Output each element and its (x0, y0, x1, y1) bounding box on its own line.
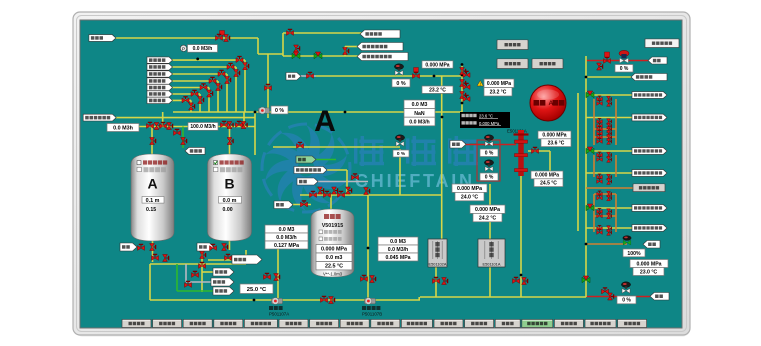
valve cluster-4b (607, 123, 612, 129)
junction (461, 74, 464, 77)
3-way valve (314, 52, 322, 59)
branch connector 3b (593, 194, 595, 232)
svg-text:24.0 °C: 24.0 °C (461, 194, 479, 200)
label reflux (286, 73, 301, 81)
svg-text:0.00: 0.00 (223, 207, 233, 213)
3-way valve (292, 52, 300, 59)
valve preheater A outlet 2 (442, 278, 448, 285)
nav button 15 (554, 320, 583, 328)
center vertical (367, 195, 369, 298)
branch row 1 (586, 94, 632, 96)
center meter flow (378, 245, 418, 253)
junction (367, 247, 370, 250)
pressure bottom right (630, 260, 668, 268)
valve branch top (200, 252, 206, 259)
label louver steam bottom (650, 293, 669, 301)
plant water drop (346, 170, 348, 195)
branch connector 3 (615, 194, 617, 232)
valve tank-top-v2 (332, 187, 338, 194)
riser to return label (344, 47, 346, 57)
riser a (162, 112, 164, 127)
label steam recovery (643, 241, 660, 249)
junction (433, 75, 436, 78)
valve hot-water drop 2 (181, 138, 187, 145)
svg-text:P501107B: P501107B (362, 312, 382, 317)
valve branch-3 (185, 281, 192, 287)
nav button 10 (401, 320, 432, 328)
label washing agent (147, 71, 173, 77)
valve tank-top-1 (310, 191, 317, 197)
feed to tank A (151, 127, 153, 155)
drop to boxes (549, 151, 551, 171)
reflux header (316, 75, 462, 77)
NaN display (404, 109, 435, 118)
drop to pump (267, 54, 269, 118)
stub to label D (208, 259, 232, 261)
position 100% (623, 249, 645, 257)
stub from big valve (528, 150, 550, 152)
valve on hot water header (297, 142, 304, 148)
label plant process water (294, 167, 327, 174)
junction (461, 63, 464, 66)
control valve on reflux header (394, 64, 403, 75)
preheater B outlet (489, 267, 491, 297)
nav button 13 (495, 320, 520, 328)
valve cluster-12b (607, 179, 612, 185)
svg-text:0.0 M3h: 0.0 M3h (113, 125, 133, 131)
into hot water tank (330, 195, 332, 209)
branch row 4 (586, 172, 632, 174)
screen (80, 20, 682, 328)
valve cluster-11a (597, 174, 603, 179)
valve cluster-3b (607, 119, 612, 125)
valve top feed 2 (224, 35, 230, 42)
pipe from mountain spring header (115, 37, 258, 39)
valve preheater B outlet (513, 277, 520, 283)
valve stack-5H (200, 84, 207, 90)
svg-text:0.15: 0.15 (146, 207, 156, 213)
watermark logo (261, 124, 478, 212)
valve to continuous system (287, 29, 294, 35)
label mountain spring group (89, 35, 116, 42)
label steam (274, 201, 293, 209)
label continuous liquor return (357, 43, 403, 51)
valve bottom-1 (321, 296, 328, 302)
bottom steam position (617, 296, 636, 304)
branch row 3 (586, 150, 632, 152)
valve header-7 (236, 121, 243, 127)
valve cluster-1b (607, 96, 612, 102)
vacuum line (318, 181, 368, 183)
label to continuous liquor D (232, 255, 262, 264)
valve handle (220, 31, 225, 36)
top steam to louver (586, 60, 648, 62)
valve tank A out-3 (152, 254, 159, 260)
preheater E501102A (428, 239, 447, 267)
pressure preheater A (470, 205, 505, 213)
pressure warning display (484, 79, 514, 88)
grey stub (186, 281, 211, 283)
valve header-6 (227, 122, 233, 129)
meter drop (277, 249, 279, 298)
steam control valve 2 (484, 160, 493, 171)
volume display (404, 100, 435, 109)
valve header-5 (221, 121, 228, 127)
process water line (116, 117, 255, 119)
valve bottom steam 2 (608, 293, 614, 300)
valve cluster-13a (597, 191, 603, 196)
valve header-2 (154, 123, 160, 130)
valve cluster-1a (597, 96, 603, 101)
svg-text:0.127 MPa: 0.127 MPa (274, 243, 299, 249)
nav button 3 (183, 320, 212, 328)
valve cluster-15b (607, 209, 612, 215)
label production mixed liquor system (357, 53, 408, 61)
valve cluster-9b (607, 152, 612, 158)
temperature preheater B (455, 192, 484, 200)
valve cluster-2b (607, 101, 612, 107)
drop from stack label 7 (190, 100, 192, 112)
position hot water (393, 150, 409, 157)
flow meter icon (180, 45, 186, 52)
svg-text:NaN: NaN (414, 111, 425, 117)
bottom long header (150, 299, 420, 301)
valve cluster-15a (597, 209, 603, 214)
bottom steam to louver (586, 296, 650, 298)
tank meter flow (265, 233, 308, 241)
branch row 2 (586, 117, 632, 119)
valve cluster-16a (597, 213, 603, 218)
svg-text:0.000 MPa: 0.000 MPa (475, 207, 500, 213)
label steam supply (450, 141, 466, 149)
branch connector 2 (615, 155, 617, 177)
label fermenter (147, 91, 173, 97)
tank A (131, 154, 174, 241)
valve cluster-17b (607, 226, 612, 232)
valve cluster-2a (597, 101, 603, 106)
valve center-1 (361, 275, 368, 281)
pipe from stack label 5 (172, 87, 209, 89)
hot water tank temperature (316, 262, 352, 270)
temperature mid-right (534, 179, 563, 187)
label yeast workshop (147, 64, 173, 70)
to pipe-rack button (586, 187, 633, 189)
pipe from stack label 4 (172, 80, 218, 82)
svg-text:P501107A: P501107A (269, 312, 289, 317)
tank meter pressure (265, 241, 308, 249)
bridge (258, 53, 283, 55)
top steam position (615, 65, 633, 73)
big valve drop (520, 176, 522, 297)
valve cluster-6a (597, 131, 603, 136)
stub to sorbitol (202, 271, 213, 273)
steam info black box (460, 112, 510, 128)
junction (344, 111, 347, 114)
valve stack-2V (234, 70, 240, 77)
metering pump (259, 107, 270, 114)
valve top feed 1 (216, 34, 223, 40)
tank B (208, 154, 252, 241)
nav button 11 (434, 320, 463, 328)
svg-text:P: P (182, 46, 185, 52)
valve above 3-way (294, 45, 300, 52)
pump A label (269, 306, 289, 317)
descending branch (201, 250, 203, 292)
valve beside E501101A (532, 147, 539, 153)
top steam control valve (619, 50, 629, 63)
mid cluster row 2 (594, 136, 616, 138)
junction (585, 243, 588, 246)
svg-text:0.000 MPa: 0.000 MPa (535, 173, 559, 179)
flow display 0.0 M3h (107, 124, 139, 132)
nav button 4 (214, 320, 243, 328)
flow display 0.0 M3/h (188, 45, 218, 53)
valve cluster-16b (607, 213, 612, 219)
valve stack-5V (207, 90, 213, 97)
nav button 6 (279, 320, 308, 328)
svg-text:0 %: 0 % (622, 298, 631, 304)
valve cluster-5a (597, 127, 603, 132)
hot water tank pressure (316, 245, 352, 253)
pipe from stack label 1 (172, 59, 245, 61)
valve cluster-17a (597, 226, 603, 231)
label line 2-3 sample (632, 114, 667, 121)
mid cluster row 1 (594, 128, 616, 130)
pump speed 0 % (271, 106, 288, 114)
svg-text:A: A (314, 105, 336, 138)
junction (254, 111, 257, 114)
valve cluster-14a (597, 195, 603, 200)
position 1 (480, 149, 498, 157)
nav button 1 (122, 320, 151, 328)
svg-text:23.2 °C: 23.2 °C (490, 90, 507, 96)
valve drop-6 (463, 95, 470, 101)
steam control valve 1 (484, 135, 493, 146)
button control (532, 59, 563, 69)
hot water tank volume (316, 253, 352, 261)
temperature by big valve (541, 139, 571, 147)
svg-text:0.0 M3/h: 0.0 M3/h (388, 247, 408, 253)
3-way valve branch 5 (586, 204, 594, 211)
svg-text:100.0 M3/h: 100.0 M3/h (190, 124, 215, 130)
valve vacuum line (352, 174, 359, 180)
valve preheater B outlet 2 (522, 278, 528, 285)
valve cluster-3a (597, 119, 603, 124)
svg-text:0.0 m: 0.0 m (223, 198, 237, 204)
valve cluster-18b (607, 230, 612, 236)
hot water tank V501915 (311, 209, 354, 277)
valve bottom steam 1 (602, 288, 609, 294)
valve tank-top-v1 (318, 187, 324, 194)
label vacuum (297, 178, 318, 185)
upper left vertical (282, 33, 284, 56)
svg-text:0.0 M3/h: 0.0 M3/h (409, 119, 429, 125)
warning triangle (477, 80, 483, 86)
3-way valve branch 1 (586, 91, 594, 98)
right main vertical (585, 56, 587, 297)
valve handle (605, 52, 610, 57)
label continuous liquor system (360, 30, 400, 38)
hot water tank top header (300, 194, 441, 196)
valve tank B feed (227, 138, 233, 145)
svg-text:0.0 M3/h: 0.0 M3/h (276, 235, 296, 241)
nav button 9 (371, 320, 400, 328)
nav button 2 (153, 320, 182, 328)
svg-text:23.0 °C: 23.0 °C (640, 269, 658, 275)
green actuator valve (623, 235, 632, 245)
button monitor continuous liquor 1 (645, 39, 679, 48)
junction (585, 76, 588, 79)
valve reflux (307, 72, 314, 78)
mid vertical to preheater A (441, 76, 443, 239)
plant water stub (327, 169, 347, 171)
valve cluster-10a (597, 157, 603, 162)
svg-text:0 %: 0 % (275, 108, 284, 114)
svg-text:0.0 M3: 0.0 M3 (390, 239, 406, 245)
svg-text:24.2 °C: 24.2 °C (479, 215, 497, 221)
valve header-1 (147, 122, 154, 128)
branch connector 1 (615, 99, 617, 145)
junction (520, 274, 523, 277)
nav button 17 (618, 320, 647, 328)
svg-text:0.1 m: 0.1 m (146, 198, 160, 204)
valve top steam bypass (597, 63, 603, 70)
nav button 12 (465, 320, 494, 328)
svg-text:A: A (147, 176, 157, 192)
junction (253, 299, 256, 302)
svg-text:0.045 MPa: 0.045 MPa (385, 255, 410, 261)
drop from control valve (399, 149, 401, 195)
right drop (254, 112, 256, 155)
valve cluster-5b (607, 127, 612, 133)
drop from stack label 4 (217, 81, 219, 112)
svg-text:25.0 °C: 25.0 °C (247, 287, 267, 293)
svg-text:22.5 °C: 22.5 °C (325, 264, 343, 270)
temperature bottom right (633, 268, 664, 276)
valve header-3 (160, 122, 167, 128)
label spring tank (147, 57, 173, 63)
svg-text:0.000 MPa: 0.000 MPa (479, 121, 500, 126)
drop from stack label 2 (235, 67, 237, 112)
drop to preheater B (489, 184, 491, 239)
tank B leg (245, 250, 247, 264)
valve tank-top-2 (324, 191, 331, 197)
valve meter drop-1 (264, 273, 271, 279)
valve cluster-14b (607, 195, 612, 201)
svg-text:V501915: V501915 (322, 223, 344, 229)
svg-text:0.000 MPa: 0.000 MPa (457, 186, 482, 192)
pipe to production liquor system (283, 55, 360, 57)
to green actuator (586, 243, 627, 245)
svg-text:!: ! (480, 81, 481, 86)
label line 1-2 sample (632, 148, 667, 155)
valve stack-2H (227, 63, 234, 69)
svg-text:B: B (224, 176, 234, 192)
valve top steam main (604, 57, 611, 63)
valve cluster-8a (597, 139, 603, 144)
label louver steam A (120, 243, 137, 251)
pump B label (362, 306, 382, 317)
green drop to hot-water label (182, 127, 184, 149)
bottom steam control valve (621, 282, 630, 293)
pipe to return label (345, 46, 358, 48)
label filter (147, 84, 173, 90)
nav button 5 (244, 320, 277, 328)
svg-text:0.0 M3: 0.0 M3 (279, 227, 295, 233)
valve meter drop-2 (274, 274, 280, 281)
valve left-center (265, 84, 272, 90)
to application system (586, 76, 631, 78)
label hot water tank feed (185, 147, 205, 154)
drop from stack label 5 (208, 88, 210, 113)
valve stack-4V (216, 84, 222, 91)
valve cluster-12a (597, 179, 603, 184)
valve position 0 % (392, 79, 410, 87)
nav button 16 (585, 320, 616, 328)
bottom right header (420, 296, 586, 298)
pressure mid-right (531, 171, 563, 179)
steam stub to tank (293, 204, 311, 206)
flow display (404, 117, 435, 126)
pipe from stack label 6 (172, 93, 200, 95)
valve cluster-10b (607, 157, 612, 163)
junction (441, 116, 444, 119)
valve drop-3 (460, 80, 466, 87)
valve drop-4 (463, 83, 470, 89)
svg-text:0 %: 0 % (485, 175, 494, 181)
valve cluster-7b (607, 135, 612, 141)
pump B (365, 298, 376, 305)
svg-text:V**-1.0m3: V**-1.0m3 (323, 271, 343, 276)
valve bottom-2 (329, 297, 335, 304)
valve tank B out-2 (222, 244, 228, 251)
valve tank B out-1 (210, 244, 217, 250)
button pipe-rack mid (633, 184, 665, 192)
button one-key close (497, 40, 528, 50)
header jog (418, 297, 420, 300)
preheater A outlet (435, 267, 437, 297)
svg-text:0.000 MPa: 0.000 MPa (487, 81, 511, 87)
tank B outlet (229, 241, 231, 250)
hot water stub (316, 159, 336, 161)
valve tank A feed (150, 138, 156, 145)
valve header-4 (167, 123, 173, 130)
svg-text:0.0 M3/h: 0.0 M3/h (193, 46, 213, 52)
pipe to continuous-liquor system (283, 32, 362, 34)
collector (150, 263, 246, 265)
stop button (liquor A stop) (530, 85, 566, 121)
junction below flow box (196, 58, 199, 61)
valve center riser (364, 188, 370, 195)
reflux grey stub (300, 75, 316, 77)
green stub to hot water tank label (177, 290, 213, 292)
valve tank A out-2 (150, 244, 156, 251)
svg-text:24.5 °C: 24.5 °C (540, 181, 557, 187)
temperature preheater A (473, 213, 502, 221)
valve stack-6H (191, 90, 198, 96)
control valve hot water (395, 135, 404, 146)
grey branch (185, 264, 187, 282)
svg-text:0.0 m3: 0.0 m3 (326, 255, 343, 261)
label line b2-2 sample (632, 205, 667, 212)
valve drop-5 (460, 92, 466, 99)
valve stack-3V (225, 77, 231, 84)
valve tank-top-3 (338, 191, 345, 197)
valve cluster-6b (607, 131, 612, 137)
svg-text:23.6 °C: 23.6 °C (479, 113, 493, 118)
3-way valve bottom header (582, 276, 590, 283)
green branch (176, 264, 178, 291)
